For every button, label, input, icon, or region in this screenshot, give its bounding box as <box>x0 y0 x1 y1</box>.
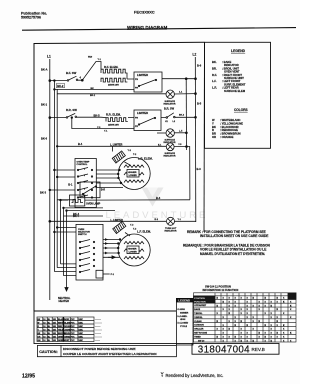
svg-text:CYCLE: CYCLE <box>180 326 188 328</box>
svg-text:B-R: B-R <box>101 189 106 192</box>
switch B.F. SW <box>66 71 77 75</box>
label BK-2 boxed <box>57 83 65 88</box>
svg-text:BR: BR <box>212 132 216 136</box>
outer box right edge <box>203 42 206 232</box>
wire bus x54 down <box>53 89 55 271</box>
svg-text:318047004: 318047004 <box>198 345 250 356</box>
svg-text:INFORMATION 11 FUNCTION: INFORMATION 11 FUNCTION <box>203 288 239 292</box>
caution box <box>37 345 176 356</box>
svg-text:LIMITER: LIMITER <box>137 111 148 115</box>
svg-text:105C: 105C <box>78 329 83 331</box>
limiter L rotated B <box>113 221 126 233</box>
svg-text:FEC3X9XC: FEC3X9XC <box>134 10 155 15</box>
footer leadventure credit <box>161 372 224 378</box>
wire limiterB to burner2 <box>125 233 130 237</box>
wire color table bottom left <box>37 317 102 342</box>
svg-text:SW 10: SW 10 <box>198 340 205 342</box>
title underline <box>127 28 167 30</box>
selector2 internal contacts <box>80 240 90 273</box>
svg-text:BK: BK <box>212 125 216 129</box>
switch function table header <box>203 285 239 293</box>
svg-text:OR: OR <box>212 135 216 139</box>
svg-text:YELW: YELW <box>58 329 64 331</box>
burner circle L.F. ELEM <box>137 230 151 234</box>
svg-text:BK-1: BK-1 <box>41 103 48 107</box>
svg-text:12/95: 12/95 <box>22 374 35 380</box>
svg-text:PVC: PVC <box>71 329 76 331</box>
svg-text:W: W <box>38 322 40 324</box>
wires lower feeds <box>64 208 116 216</box>
label B-5 <box>197 102 202 172</box>
svg-text:BK-2: BK-2 <box>57 84 64 88</box>
svg-text:TIMED: TIMED <box>194 336 201 338</box>
wire bus x60 down <box>60 200 62 264</box>
svg-text:BRUN: BRUN <box>64 333 70 335</box>
burner circle L.R. ELEM <box>138 157 153 161</box>
svg-text:INDICATOR: INDICATOR <box>165 229 177 232</box>
svg-text:PVC: PVC <box>71 336 76 338</box>
svg-text:VERT: VERT <box>64 340 70 342</box>
svg-text:OVEN LAMP: OVEN LAMP <box>86 203 101 206</box>
watermark LeadVenture <box>106 188 209 221</box>
svg-text:R: R <box>212 128 214 132</box>
wire limiter2 to L2 <box>161 116 196 118</box>
svg-text:L. LIMITER: L. LIMITER <box>111 219 124 222</box>
svg-text:B-4: B-4 <box>78 142 83 146</box>
black header cells <box>194 296 216 303</box>
svg-text:105: 105 <box>53 326 56 328</box>
grid rows <box>194 296 297 339</box>
svg-text:B-3: B-3 <box>156 196 161 200</box>
svg-text:SIMMER: SIMMER <box>180 312 189 314</box>
svg-text:LOWER: LOWER <box>129 252 138 254</box>
svg-text:L. LIMITER: L. LIMITER <box>110 143 123 146</box>
svg-text:2350W 240V: 2350W 240V <box>108 83 120 86</box>
wire branch row2 to limiter2 <box>72 118 134 129</box>
svg-text:RED: RED <box>58 326 63 328</box>
svg-text:: BLACK/NOIR: : BLACK/NOIR <box>220 125 239 129</box>
wire limiter1 to L2 <box>162 78 196 80</box>
svg-text:CAUTION:: CAUTION: <box>39 350 58 354</box>
svg-text:GRILLER: GRILLER <box>194 329 204 331</box>
svg-text:LOWER: LOWER <box>129 175 138 177</box>
svg-text:LIMITER: LIMITER <box>137 73 148 77</box>
svg-text:105: 105 <box>53 322 56 324</box>
svg-text:BK-3: BK-3 <box>40 191 47 195</box>
power rails and row 1 <box>40 53 202 301</box>
limiter 2 box <box>134 110 161 131</box>
svg-text:PVC: PVC <box>71 322 76 324</box>
wire turn-hot to L2 <box>175 220 196 222</box>
wire B-3 <box>61 199 190 201</box>
svg-text:BR.: BR. <box>212 66 217 70</box>
svg-text:CUISSON: CUISSON <box>194 325 204 327</box>
svg-text:ORNG: ORNG <box>64 336 70 338</box>
svg-text:INSTALLATION SHEET ON USE CARE: INSTALLATION SHEET ON USE CARE GUIDE <box>200 234 268 238</box>
label BK-1 <box>41 103 48 107</box>
svg-text:105C: 105C <box>78 319 83 321</box>
main diagram outer box <box>34 42 205 311</box>
resistor R.F. ELEM (dual coil) <box>104 65 119 69</box>
legend box <box>205 42 271 148</box>
svg-text:R.F. ELEM.: R.F. ELEM. <box>104 65 119 69</box>
switch function table <box>194 293 297 343</box>
svg-text:COLORS: COLORS <box>234 108 248 112</box>
svg-text:105: 105 <box>53 333 56 335</box>
oven lamp box <box>70 195 85 206</box>
node L2 label <box>193 53 197 57</box>
legend contents <box>212 49 248 139</box>
wire B-4 feed <box>57 146 166 151</box>
wire lamp3 to inner bus <box>174 147 190 200</box>
svg-text:B-5: B-5 <box>197 102 202 106</box>
svg-text:18: 18 <box>43 326 45 328</box>
svg-text:NOIR: NOIR <box>64 319 69 321</box>
svg-text:CONTROL: CONTROL <box>77 164 88 166</box>
svg-text:PN: PN <box>135 118 138 120</box>
svg-text:ORNG: ORNG <box>58 336 64 338</box>
wire row2 from L1 <box>50 116 101 118</box>
svg-text:B.F. SW: B.F. SW <box>66 71 77 75</box>
svg-text:BAKE: BAKE <box>194 308 201 311</box>
svg-text:R.R. SW: R.R. SW <box>66 108 77 112</box>
svg-text:R.R. ELEM.: R.R. ELEM. <box>106 113 121 117</box>
switch B.R. SW mid <box>164 107 175 111</box>
svg-text:1250W 240V: 1250W 240V <box>108 123 120 126</box>
resistor R.R. ELEM <box>106 113 121 117</box>
grid cols <box>215 293 288 342</box>
wire to lamp 2 <box>157 132 166 134</box>
wires selector2 to burner2 <box>103 240 120 258</box>
wire L1 vertical rail <box>49 59 51 300</box>
lamp surface indicator 1 <box>166 90 174 98</box>
svg-text:NETTOYAGE: NETTOYAGE <box>194 332 207 335</box>
svg-text:HIGHER: HIGHER <box>128 248 137 250</box>
label BK-A <box>41 68 48 72</box>
svg-text:BK-4: BK-4 <box>73 215 79 218</box>
lamp surface indicator 2 <box>166 129 174 137</box>
svg-text:PN: PN <box>135 79 138 81</box>
wire L2 vertical rail <box>194 57 197 222</box>
svg-text:HIGH: HIGH <box>180 319 186 321</box>
svg-text:BK-6: BK-6 <box>41 137 48 141</box>
svg-text:BK-5: BK-5 <box>94 114 101 118</box>
wire limiterA to burner1 <box>125 162 131 165</box>
svg-text:105: 105 <box>53 319 56 321</box>
svg-text:: BROWN/BRUN: : BROWN/BRUN <box>220 132 241 136</box>
wire bus x63 down <box>63 208 65 276</box>
wires selector1 to bus <box>50 170 75 200</box>
label B-6 <box>197 64 202 68</box>
svg-text:5995275796: 5995275796 <box>21 16 41 20</box>
oven / middle section <box>49 89 196 280</box>
mini legend box center bottom <box>176 298 193 345</box>
wire inner vertical bus <box>185 79 187 150</box>
svg-text:MANUEL D'UTILISATION ET D'ENTR: MANUEL D'UTILISATION ET D'ENTRETIEN. <box>200 252 265 256</box>
svg-text:L1: L1 <box>47 55 51 59</box>
svg-text:HIGHER: HIGHER <box>128 172 137 174</box>
relay box <box>80 182 100 198</box>
svg-text:SURFACE ELEM: SURFACE ELEM <box>224 89 246 93</box>
svg-text:BK-1: BK-1 <box>90 95 96 97</box>
svg-text:PVC: PVC <box>71 319 76 321</box>
selector switch box 1 <box>75 159 96 208</box>
svg-text:HEATER: HEATER <box>59 299 70 303</box>
svg-text:L.F. ELEM.: L.F. ELEM. <box>137 230 151 234</box>
svg-text:L.F.: L.F. <box>212 79 217 83</box>
small box right of selector2 <box>96 270 103 278</box>
arrows selector2 exit rows <box>105 238 108 254</box>
svg-text:I-LO.MED.: I-LO.MED. <box>177 316 187 318</box>
svg-text:SWITCH: SWITCH <box>78 234 87 236</box>
limiter 1 box <box>134 72 162 92</box>
x marks in cells <box>217 297 293 343</box>
svg-text:105C: 105C <box>78 333 83 335</box>
header publication text <box>21 10 167 30</box>
label BK-3 <box>40 137 48 195</box>
row labels <box>194 304 207 342</box>
svg-text:105C: 105C <box>78 322 83 324</box>
svg-text:L.R.: L.R. <box>212 86 217 90</box>
svg-text:105C: 105C <box>78 326 83 328</box>
svg-text:18: 18 <box>43 336 45 338</box>
wire branch BK-2 to limiter <box>54 81 134 90</box>
wire row1 from L1 <box>50 79 82 81</box>
part number box <box>192 343 279 355</box>
svg-text:REV.B: REV.B <box>252 347 265 352</box>
limiter L rotated A <box>112 151 125 163</box>
svg-text:: RED/ROUGE: : RED/ROUGE <box>220 128 238 132</box>
wire indicator feed <box>57 89 166 93</box>
arrow on wire 257 <box>108 256 115 259</box>
svg-text:COUPER LE COURANT AVANT D'EFFE: COUPER LE COURANT AVANT D'EFFECTUER LA R… <box>63 352 157 356</box>
svg-text:105: 105 <box>53 329 56 331</box>
svg-text:INDICATOR: INDICATOR <box>164 155 176 158</box>
neutral heater drop <box>65 280 68 291</box>
svg-text:PR: PR <box>135 88 138 90</box>
header rule <box>22 28 296 31</box>
wire feeds into selector2 top <box>54 228 76 233</box>
wires selector1 to burner1 <box>96 170 123 188</box>
svg-text:18: 18 <box>43 322 45 324</box>
lower oven section <box>54 215 152 303</box>
wire diagonal to element row <box>82 62 101 81</box>
svg-text:O-HIGH: O-HIGH <box>177 309 185 311</box>
svg-text:OFF/ARRET: OFF/ARRET <box>194 304 207 307</box>
svg-text:BK.: BK. <box>212 60 217 64</box>
svg-text:PVC: PVC <box>71 340 76 342</box>
svg-text:BK-A: BK-A <box>41 68 48 72</box>
svg-text:V.BROIL: V.BROIL <box>194 317 203 319</box>
lamp turn hot indicator <box>167 217 175 225</box>
svg-text:18: 18 <box>43 333 45 335</box>
wire lamp1 to L2 <box>174 93 195 95</box>
svg-text:105C: 105C <box>78 340 83 342</box>
svg-text:18: 18 <box>43 319 45 321</box>
svg-text:B.R. SW: B.R. SW <box>164 107 175 111</box>
svg-text:105: 105 <box>53 336 56 338</box>
svg-text:B-1: B-1 <box>68 182 73 186</box>
selector switch box 2 <box>76 224 103 280</box>
svg-text:BK-3: BK-3 <box>179 114 185 116</box>
svg-text:B-3: B-3 <box>197 167 202 171</box>
row 2 R.R. <box>49 107 197 200</box>
svg-text:Rendered by LeadVenture, Inc.: Rendered by LeadVenture, Inc. <box>166 373 224 378</box>
wire turn-hot row <box>50 220 166 222</box>
svg-text:Y: Y <box>212 121 214 125</box>
lamp surface indicator 3 <box>166 143 174 151</box>
svg-text:T.BROIL: T.BROIL <box>194 313 203 315</box>
svg-text:18: 18 <box>43 340 45 342</box>
outer box bottom rail y=344 <box>34 311 192 344</box>
svg-text:B-6: B-6 <box>197 64 202 68</box>
svg-text:PR: PR <box>135 126 138 128</box>
wire bus x57 down <box>56 94 58 268</box>
remark text block <box>183 230 270 256</box>
svg-text:PVC: PVC <box>71 326 76 328</box>
svg-text:: WHITE/BLANC: : WHITE/BLANC <box>220 118 241 122</box>
svg-text:LEGEND: LEGEND <box>231 49 246 53</box>
svg-text:105: 105 <box>53 340 56 342</box>
svg-text:105C: 105C <box>78 336 83 338</box>
selector1 internal contacts <box>78 168 88 198</box>
svg-text:DISCONNECT POWER BEFORE SERVIC: DISCONNECT POWER BEFORE SERVICING UNIT. <box>63 347 136 351</box>
svg-text:R.F.: R.F. <box>212 73 217 77</box>
svg-text:SW-104 11 POSITION: SW-104 11 POSITION <box>205 285 231 289</box>
svg-text:CLEAN: CLEAN <box>194 320 202 323</box>
switch R.R. SW <box>66 108 77 112</box>
svg-text:INDICATOR: INDICATOR <box>164 102 176 105</box>
wire bus x66 down <box>66 211 68 280</box>
node L1 label <box>47 55 51 59</box>
svg-text:18: 18 <box>43 329 45 331</box>
svg-text:L2: L2 <box>193 53 197 57</box>
wires bus to selector2 <box>54 264 76 276</box>
outer box bottom rail y=311 <box>34 310 176 312</box>
wire lamp2 to bus <box>174 132 186 134</box>
svg-text:LEGEND: LEGEND <box>178 298 190 302</box>
svg-text:X-CLOSED: X-CLOSED <box>177 323 188 325</box>
svg-text:PVC: PVC <box>71 333 76 335</box>
svg-text:: ORANGE: : ORANGE <box>220 135 234 139</box>
svg-text:: YELLOW/JAUNE: : YELLOW/JAUNE <box>220 121 243 125</box>
